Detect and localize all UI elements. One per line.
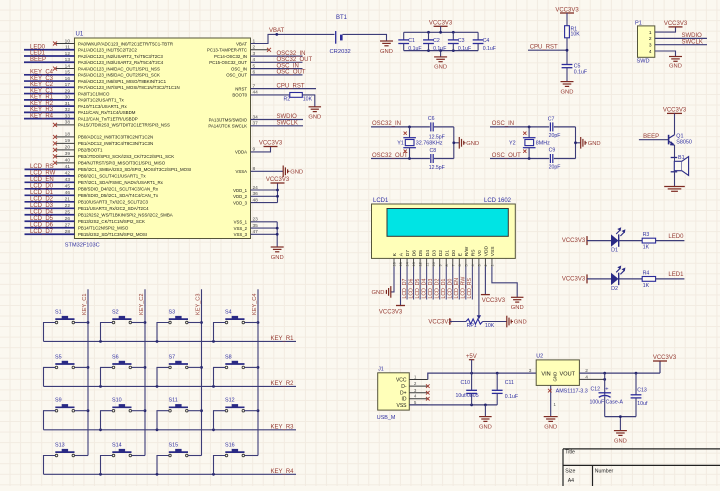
U1 pin 11 (PA1) left wire — [24, 44, 138, 52]
svg-text:LCD_D7: LCD_D7 — [30, 229, 54, 235]
svg-text:S15: S15 — [169, 443, 179, 449]
ground (beeper, no text) — [664, 187, 685, 192]
svg-text:Q1: Q1 — [676, 133, 683, 139]
svg-text:39: 39 — [65, 151, 71, 157]
switch S1 — [55, 310, 75, 324]
svg-text:VDD_1: VDD_1 — [233, 188, 247, 193]
wire U2 GND pin1 to ground — [548, 385, 557, 416]
wire net LED1 — [656, 272, 685, 279]
svg-text:ID: ID — [402, 397, 407, 403]
svg-text:0.1uF: 0.1uF — [458, 46, 471, 52]
svg-text:Number: Number — [595, 468, 614, 474]
svg-text:42: 42 — [65, 171, 71, 177]
power +5V — [466, 354, 477, 373]
svg-text:KEY_C2: KEY_C2 — [139, 294, 145, 315]
svg-text:LED0: LED0 — [668, 234, 684, 240]
svg-text:VCC3V3: VCC3V3 — [664, 21, 688, 27]
svg-text:40: 40 — [65, 158, 71, 164]
svg-text:VCC3V3: VCC3V3 — [429, 20, 453, 26]
svg-text:USB_M: USB_M — [377, 415, 396, 421]
wire LED to resistor — [619, 278, 643, 280]
svg-text:PA9/T1C2/USART1_Tx: PA9/T1C2/USART1_Tx — [78, 98, 125, 103]
regulator U2 AMS1117-3.3 — [536, 354, 588, 395]
wire net OSC32_OUT — [371, 153, 454, 160]
svg-text:PB4/NJTRST/SPI3_MISO/T3C1/SPI1: PB4/NJTRST/SPI3_MISO/T3C1/SPI1_MISO — [78, 161, 166, 166]
switch S4 — [225, 310, 245, 324]
svg-text:VSS: VSS — [490, 246, 496, 257]
svg-text:BT1: BT1 — [336, 15, 348, 21]
svg-text:S10: S10 — [112, 398, 122, 404]
svg-text:BOOT0: BOOT0 — [232, 93, 247, 98]
switch S8 — [225, 354, 245, 368]
wire S2 terminals — [101, 323, 146, 342]
svg-text:LCD_D4: LCD_D4 — [421, 278, 427, 298]
svg-text:D0: D0 — [451, 250, 457, 257]
wire row KEY_R4 — [44, 469, 297, 476]
svg-text:LCD 1602: LCD 1602 — [484, 198, 512, 204]
svg-text:28: 28 — [65, 229, 71, 235]
svg-text:VDD_2: VDD_2 — [233, 194, 247, 199]
power VCC3V3 at P1 pin1 — [655, 21, 688, 32]
switch S12 — [225, 398, 245, 412]
U1 pin 31 (PA10) left wire — [24, 101, 127, 109]
svg-text:1: 1 — [649, 30, 652, 36]
capacitor C10 10uf/0805 — [456, 373, 479, 405]
svg-text:LCD_D5: LCD_D5 — [30, 216, 54, 222]
U1 pin 25 (PB12) left wire — [25, 209, 173, 217]
wire net OSC32_IN — [371, 121, 454, 128]
svg-text:R2: R2 — [284, 96, 291, 102]
wire VBAT from U1 pin1 to battery — [251, 33, 335, 44]
svg-text:C9: C9 — [549, 147, 556, 153]
wire S14 terminals — [101, 456, 146, 475]
wire C1-C4 bottom rail — [404, 49, 478, 52]
svg-text:12.5pF: 12.5pF — [429, 135, 445, 141]
svg-text:R4: R4 — [643, 270, 650, 276]
wire net CPU_RST at U1 pin 7 — [251, 83, 316, 89]
capacitor C6 12.5pF — [428, 116, 445, 140]
svg-text:PB3/JTDO/SPI3_SCK/I2S3_CK/T2C2: PB3/JTDO/SPI3_SCK/I2S3_CK/T2C2/SPI1_SCK — [78, 154, 174, 159]
svg-text:15: 15 — [65, 70, 71, 76]
svg-text:PB11/USART3_Rx/I2C2_SDA/T2C4: PB11/USART3_Rx/I2C2_SDA/T2C4 — [78, 206, 149, 211]
svg-text:S7: S7 — [169, 354, 176, 360]
svg-text:VCC: VCC — [396, 377, 407, 383]
U1 pin 40 (PB4) left wire — [53, 158, 166, 166]
wire S9 terminals — [44, 411, 89, 430]
svg-text:S3: S3 — [169, 310, 176, 316]
svg-text:OSC32_OUT: OSC32_OUT — [277, 57, 313, 63]
svg-text:SWCLK: SWCLK — [277, 121, 298, 127]
svg-text:KEY_C2: KEY_C2 — [30, 82, 54, 88]
svg-text:CR2032: CR2032 — [330, 49, 351, 55]
svg-text:PB8/SDIO_D4/I2C1_SCL/T4C3/CAN_: PB8/SDIO_D4/I2C1_SCL/T4C3/CAN_Rx — [78, 187, 159, 192]
power VCC3V3 above R1 — [555, 7, 579, 25]
svg-text:STM32F103C: STM32F103C — [65, 242, 100, 248]
capacitor C7 20pF — [548, 117, 561, 139]
ground GND (U2 pin1) — [544, 417, 558, 431]
svg-text:18: 18 — [65, 132, 71, 138]
svg-text:OSC32_IN: OSC32_IN — [372, 121, 401, 127]
svg-text:VSS_3: VSS_3 — [234, 232, 248, 237]
connector J1 USB_M — [377, 367, 410, 422]
svg-text:25: 25 — [65, 210, 71, 216]
svg-text:U1: U1 — [76, 32, 84, 38]
svg-text:1: 1 — [491, 264, 495, 266]
U1 pin 38 (PA15) left wire — [53, 120, 170, 128]
svg-text:VSS_1: VSS_1 — [234, 220, 248, 225]
svg-text:GND: GND — [308, 115, 321, 121]
svg-text:GND: GND — [434, 65, 447, 71]
svg-text:12.5pF: 12.5pF — [429, 165, 445, 171]
power VCC3V3 rail at U1 VDD pins 24/36/48 — [251, 177, 290, 203]
wire C1-C4 top rail — [404, 31, 478, 34]
svg-text:PA0/WKUP/ADC123_IN0/T2C1ETR/T5: PA0/WKUP/ADC123_IN0/T2C1ETR/T5C1-TBTR — [78, 41, 173, 46]
capacitor C9 20pF — [549, 147, 561, 170]
wire S10 terminals — [101, 411, 146, 430]
svg-text:PB0/ADC12_IN8/T3C3/T8C2N/T1C2N: PB0/ADC12_IN8/T3C3/T8C2N/T1C2N — [78, 135, 153, 140]
svg-text:PA7/ADC123_IN7/SPI1_MOSI/T8C1N: PA7/ADC123_IN7/SPI1_MOSI/T8C1N/T3C2/T1C1… — [78, 85, 180, 90]
svg-text:LCD_D5: LCD_D5 — [415, 278, 421, 298]
wire U2 VOUT rail to VCC3V3 — [579, 368, 660, 381]
svg-text:10: 10 — [432, 262, 436, 266]
svg-text:VCC3V3: VCC3V3 — [562, 277, 586, 283]
U1 pin 46 (PB9) left wire — [25, 190, 159, 198]
resistor R4 1K — [642, 270, 655, 289]
ground GND (LCD VSS) — [511, 297, 524, 311]
svg-text:GND: GND — [514, 320, 527, 326]
svg-text:OSC_OUT: OSC_OUT — [226, 73, 247, 78]
U1 pin 33 (PA12) left wire — [24, 113, 138, 121]
svg-text:S4: S4 — [225, 310, 232, 316]
svg-text:0.1uF: 0.1uF — [483, 46, 496, 52]
svg-text:LCD_D0: LCD_D0 — [30, 184, 54, 190]
svg-text:VCC3V3: VCC3V3 — [653, 355, 677, 361]
svg-text:29: 29 — [65, 88, 71, 94]
svg-text:33: 33 — [65, 113, 71, 119]
capacitor C12 100uF Case-A (polarized) — [590, 373, 624, 417]
ground GND (output caps) — [614, 431, 627, 445]
svg-text:16: 16 — [393, 262, 397, 266]
svg-text:BEEP: BEEP — [30, 57, 46, 63]
switch S7 — [169, 354, 189, 368]
capacitor C1 0.1uF — [398, 32, 421, 52]
svg-text:PB13/I2S2_CK/T1C1N/SPI2_SCK: PB13/I2S2_CK/T1C1N/SPI2_SCK — [78, 219, 145, 224]
svg-text:LCD_RW: LCD_RW — [30, 171, 56, 177]
svg-text:PA8/T1C1/MCO: PA8/T1C1/MCO — [78, 91, 110, 96]
wire GND rail under J1 — [409, 404, 497, 407]
svg-text:GND: GND — [479, 424, 492, 430]
svg-text:C6: C6 — [428, 116, 435, 122]
svg-text:KEY_C1: KEY_C1 — [82, 294, 88, 315]
svg-text:S13: S13 — [55, 443, 65, 449]
svg-text:LCD_D4: LCD_D4 — [30, 209, 54, 215]
svg-text:11: 11 — [65, 45, 70, 51]
ground GND sideways (Y1) — [459, 137, 479, 149]
svg-text:S5: S5 — [55, 354, 62, 360]
svg-text:LCD_RS: LCD_RS — [467, 277, 473, 298]
svg-text:VCC3V3: VCC3V3 — [482, 298, 506, 304]
svg-text:10uf: 10uf — [637, 401, 648, 407]
svg-text:Title: Title — [565, 450, 575, 456]
svg-text:7: 7 — [451, 264, 455, 266]
svg-text:12: 12 — [65, 51, 71, 57]
svg-text:26: 26 — [65, 216, 71, 222]
transistor Q1 S8050 — [669, 133, 692, 145]
svg-text:LED0: LED0 — [30, 44, 46, 50]
svg-text:D2: D2 — [611, 286, 618, 292]
power VCC3V3 at D1 anode — [562, 236, 611, 245]
wire column KEY_C4 — [252, 289, 259, 455]
svg-text:8: 8 — [445, 264, 449, 266]
power VCC3V3 at RP1 left — [428, 318, 466, 325]
ground GND (battery) — [380, 41, 393, 55]
U1 pin 15 (PA5) left wire — [24, 70, 160, 78]
svg-text:LCD_D1: LCD_D1 — [30, 190, 54, 196]
U1 pin 10 (PA0) left wire — [53, 38, 173, 46]
U1 pin 17 (PA7) left wire — [24, 82, 180, 90]
svg-text:PB9/SDIO_D5/I2C1_SDA/T4C4/CAN_: PB9/SDIO_D5/I2C1_SDA/T4C4/CAN_Tx — [78, 193, 159, 198]
svg-text:KEY_R3: KEY_R3 — [30, 107, 54, 113]
svg-text:PA14/JTCK SWCLK: PA14/JTCK SWCLK — [208, 124, 247, 129]
svg-text:43: 43 — [65, 177, 71, 183]
svg-text:20pF: 20pF — [549, 133, 561, 139]
U1 pin 27 (PB14) left wire — [25, 222, 129, 230]
svg-text:27: 27 — [65, 223, 71, 229]
ground GND sideways (Y2) — [581, 137, 601, 149]
ground GND sideways at U1 VSSA pin 8 — [251, 166, 303, 178]
wire +5V rail J1 VCC to U2 VIN — [428, 368, 536, 380]
U1 pin 42 (PB6) left wire — [25, 171, 147, 179]
svg-text:C12: C12 — [591, 387, 601, 393]
svg-text:32: 32 — [65, 107, 71, 113]
U1 right-side pin names — [207, 41, 248, 237]
ground GND (U1 VSS) — [271, 247, 284, 261]
svg-text:PB14/T1C2N/SPI2_MISO: PB14/T1C2N/SPI2_MISO — [78, 226, 129, 231]
wire net SWDIO at P1 — [655, 33, 707, 39]
svg-text:GND: GND — [380, 49, 393, 55]
svg-text:OSC_OUT: OSC_OUT — [492, 153, 521, 159]
switch S11 — [169, 398, 189, 412]
svg-text:SWDIO: SWDIO — [682, 33, 703, 39]
switch S6 — [112, 354, 132, 368]
svg-text:0.1uF: 0.1uF — [433, 46, 446, 52]
svg-text:KEY_R1: KEY_R1 — [271, 336, 295, 342]
U1 pin 12 (PA2) left wire — [24, 51, 163, 59]
svg-text:C1: C1 — [408, 38, 415, 44]
LCD1 pin stubs — [394, 258, 492, 266]
svg-text:14: 14 — [65, 63, 71, 69]
wire S16 terminals — [214, 456, 259, 475]
svg-text:PB10/USART3_Tx/I2C2_SCL/T2C3: PB10/USART3_Tx/I2C2_SCL/T2C3 — [78, 200, 149, 205]
switch S9 — [55, 398, 75, 412]
display LCD1 LCD1602 body — [372, 198, 516, 258]
wire Q1 emitter to B1 — [674, 145, 676, 158]
U1 pin 30 (PA9) left wire — [24, 95, 125, 103]
svg-text:CPU_RST: CPU_RST — [277, 83, 305, 89]
svg-text:0.1uF: 0.1uF — [574, 69, 587, 75]
power VCC3V3 at Q1 collector — [663, 108, 687, 135]
wire net OSC_OUT — [490, 153, 576, 160]
U1 pin 21 (PB10) left wire — [25, 197, 149, 205]
svg-text:4: 4 — [649, 49, 652, 55]
svg-text:KEY_R4: KEY_R4 — [271, 469, 295, 475]
svg-text:11: 11 — [425, 263, 429, 267]
svg-text:VIN: VIN — [541, 372, 550, 378]
svg-text:30: 30 — [65, 95, 71, 101]
wire Y2 right vertical + ground — [574, 127, 581, 159]
switch S3 — [169, 310, 189, 324]
svg-text:R/W: R/W — [464, 246, 470, 256]
wire LCD K to ground — [391, 267, 394, 292]
LCD data wires with rotated net labels — [402, 267, 473, 300]
svg-text:RP1: RP1 — [467, 323, 477, 329]
svg-text:OSC32_OUT: OSC32_OUT — [372, 153, 408, 159]
svg-text:10K: 10K — [571, 32, 581, 38]
svg-text:LCD_D3: LCD_D3 — [30, 203, 54, 209]
switch S15 — [169, 443, 189, 457]
svg-text:S16: S16 — [225, 443, 235, 449]
svg-text:VSS_2: VSS_2 — [234, 226, 248, 231]
svg-text:VCC3V3: VCC3V3 — [266, 177, 290, 183]
svg-text:VBAT: VBAT — [236, 41, 247, 46]
wire column KEY_C1 — [82, 289, 89, 455]
svg-text:14: 14 — [406, 262, 410, 266]
svg-text:KEY_C4: KEY_C4 — [30, 70, 54, 76]
svg-text:S1: S1 — [55, 310, 62, 316]
svg-text:D-: D- — [401, 384, 407, 390]
svg-text:S6: S6 — [112, 354, 119, 360]
svg-text:VCC3V3: VCC3V3 — [379, 309, 403, 315]
U1 pin 18 (PB0) left wire — [53, 132, 153, 140]
svg-text:D2: D2 — [438, 250, 444, 257]
svg-text:22: 22 — [65, 203, 71, 209]
svg-text:RS: RS — [470, 249, 476, 257]
wire S3 terminals — [157, 323, 202, 342]
U1 pin 14 (PA4) left wire — [53, 63, 160, 71]
switch S10 — [112, 398, 132, 412]
svg-text:41: 41 — [65, 164, 71, 170]
wire S15 terminals — [157, 456, 202, 475]
capacitor C4 0.1uF — [473, 32, 496, 52]
svg-text:+: + — [605, 387, 608, 393]
svg-text:LCD_D2: LCD_D2 — [30, 197, 54, 203]
wire net BEEP to Q1 base — [639, 134, 668, 140]
wire net OSC_IN at U1 — [251, 63, 303, 69]
LED D2 — [611, 266, 625, 292]
svg-text:V0: V0 — [477, 250, 483, 256]
svg-text:VCC3V3: VCC3V3 — [428, 319, 452, 325]
wire net SWCLK at U1 pin 37 — [251, 121, 303, 127]
svg-text:VOUT: VOUT — [560, 372, 576, 378]
svg-text:10K: 10K — [485, 323, 495, 329]
U1 pin 39 (PB3) left wire — [53, 151, 174, 159]
ground GND sideways (LCD K) — [372, 286, 391, 298]
svg-text:10K: 10K — [303, 96, 313, 102]
svg-text:PB6/I2C1_SCL/T4C1/USART1_Tx: PB6/I2C1_SCL/T4C1/USART1_Tx — [78, 174, 146, 179]
wire RP1 right to ground — [483, 321, 507, 323]
svg-text:1K: 1K — [643, 245, 650, 251]
wire LED to resistor — [619, 240, 643, 242]
wire BOOT0 resistor to ground — [302, 95, 315, 107]
IC U1 STM32F103C body — [65, 32, 251, 249]
power VCC3V3 at LCD A — [379, 267, 405, 316]
LCD1 pin names (rotated) — [392, 246, 496, 257]
svg-text:KEY_R3: KEY_R3 — [271, 424, 295, 430]
svg-text:PB12/I2S2_WS/T1BKIN/SPI2_NSS/I: PB12/I2S2_WS/T1BKIN/SPI2_NSS/I2C2_SMBA — [78, 213, 173, 218]
svg-text:VDD_3: VDD_3 — [233, 200, 247, 205]
wire row KEY_R2 — [44, 381, 297, 388]
svg-text:Y1: Y1 — [397, 141, 404, 147]
ground GND sideways (RP1) — [507, 316, 527, 328]
svg-text:PB15/I2S2_SD/T1C3N/SPI2_MOSI: PB15/I2S2_SD/T1C3N/SPI2_MOSI — [78, 232, 147, 237]
svg-text:OSC_OUT: OSC_OUT — [277, 70, 306, 76]
svg-text:LCD_RW: LCD_RW — [461, 277, 467, 299]
svg-text:GND: GND — [544, 424, 557, 430]
wire net OSC32_IN at U1 — [251, 51, 306, 57]
capacitor C11 0.1uF — [492, 373, 518, 405]
svg-text:LCD_D6: LCD_D6 — [408, 278, 414, 298]
svg-text:PA10/T1C3/USART1_Rx: PA10/T1C3/USART1_Rx — [78, 104, 127, 109]
svg-text:C3: C3 — [458, 38, 465, 44]
U1 pin 16 (PA6) left wire — [24, 76, 167, 84]
svg-text:LCD_D3: LCD_D3 — [428, 278, 434, 298]
wire S6 terminals — [101, 367, 146, 386]
svg-text:LCD_D2: LCD_D2 — [435, 278, 441, 298]
U1 pin 2 no-connect — [251, 48, 271, 52]
buzzer B1 — [671, 155, 689, 175]
svg-text:20pF: 20pF — [549, 165, 561, 171]
svg-text:45: 45 — [65, 184, 71, 190]
svg-text:PA4/ADC123_IN4/DAC_OUT1/SPI1_N: PA4/ADC123_IN4/DAC_OUT1/SPI1_NSS — [78, 66, 160, 71]
svg-text:9: 9 — [438, 264, 442, 266]
crystal Y1 32.768KHz — [397, 127, 442, 159]
svg-text:GND: GND — [511, 305, 524, 311]
svg-text:S12: S12 — [225, 398, 235, 404]
svg-text:16: 16 — [65, 76, 71, 82]
battery BT1 CR2032 — [330, 15, 351, 55]
LED D1 — [611, 227, 625, 253]
svg-text:D6: D6 — [412, 250, 418, 257]
wire net SWCLK at P1 — [655, 39, 707, 45]
svg-text:3: 3 — [529, 368, 532, 374]
U1 pin 32 (PA11) left wire — [24, 107, 136, 115]
svg-text:GND: GND — [614, 438, 627, 444]
wire S11 terminals — [157, 411, 202, 430]
ground GND (USB filter) — [479, 405, 492, 431]
svg-text:Size: Size — [565, 468, 575, 474]
svg-text:100uF Case-A: 100uF Case-A — [590, 399, 624, 405]
connector P1 SWD — [635, 21, 655, 65]
svg-text:10uf/0805: 10uf/0805 — [456, 393, 479, 399]
svg-text:1K: 1K — [643, 283, 650, 289]
svg-text:C8: C8 — [430, 148, 437, 154]
svg-text:VCC3V3: VCC3V3 — [555, 7, 579, 13]
wire row KEY_R3 — [44, 424, 297, 431]
power VCC3V3 output — [653, 355, 677, 373]
svg-text:D1: D1 — [444, 250, 450, 257]
svg-text:31: 31 — [65, 101, 71, 107]
switch S14 — [112, 443, 132, 457]
resistor R2 10K on BOOT0 — [251, 93, 313, 103]
svg-text:GND: GND — [290, 169, 303, 175]
svg-text:PA5/ADC123_IN5/DAC_OUT2/SPI1_S: PA5/ADC123_IN5/DAC_OUT2/SPI1_SCK — [78, 73, 160, 78]
svg-text:12: 12 — [419, 262, 423, 266]
svg-text:LED1: LED1 — [30, 51, 46, 57]
svg-text:LCD_D6: LCD_D6 — [30, 222, 54, 228]
svg-text:OSC_IN: OSC_IN — [492, 121, 514, 127]
svg-text:VCC3V3: VCC3V3 — [663, 108, 687, 114]
svg-text:LCD_RS: LCD_RS — [30, 164, 54, 170]
